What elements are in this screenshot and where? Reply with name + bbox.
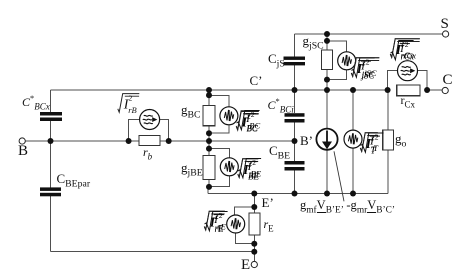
svg-text:rE: rE <box>217 222 226 232</box>
svg-text:rB: rB <box>128 105 137 115</box>
svg-text:2: 2 <box>375 132 379 141</box>
svg-text:T: T <box>373 143 379 153</box>
svg-text:2: 2 <box>251 110 255 119</box>
svg-text:2: 2 <box>252 158 256 167</box>
svg-text:BE: BE <box>251 169 262 179</box>
svg-text:2: 2 <box>129 94 133 103</box>
svg-text:rCx: rCx <box>403 51 416 61</box>
svg-text:2: 2 <box>405 40 409 49</box>
svg-text:jSC: jSC <box>363 68 377 78</box>
svg-text:BC: BC <box>249 121 260 131</box>
svg-text:2: 2 <box>366 57 370 66</box>
svg-text:2: 2 <box>219 211 223 220</box>
